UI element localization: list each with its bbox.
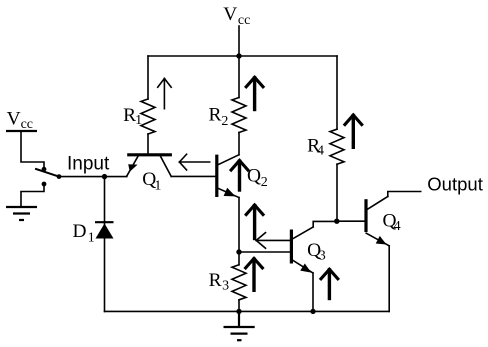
wire: input node to Q1 emitter <box>59 176 127 178</box>
current arrow (thin, left) from Q2 base <box>179 154 209 170</box>
junction: input wire / D1 <box>102 174 107 179</box>
label R1 <box>123 105 142 128</box>
junction: Q3 emitter / bottom rail <box>310 309 315 314</box>
resistor R1 <box>141 56 155 153</box>
transistor Q2 <box>217 155 239 198</box>
current arrow (thin, left) from Q3 base <box>256 233 291 249</box>
current arrow (thick, up) beside Q3 emitter <box>321 269 338 298</box>
transistor Q1 <box>127 155 172 177</box>
label D1 <box>73 221 95 245</box>
svg-text:1: 1 <box>135 113 142 128</box>
junction: bottom rail / ground <box>236 309 241 314</box>
transistor Q3 <box>291 221 336 311</box>
transistor Q4 <box>366 192 421 312</box>
label R3 <box>209 270 230 294</box>
net Vcc label (top) <box>223 4 250 28</box>
junction: R4 / Q3 collector / Q4 base <box>334 219 339 224</box>
current arrow (thick, up) above R3 junction <box>246 205 263 239</box>
diode D1 <box>95 177 114 312</box>
svg-text:2: 2 <box>221 114 228 129</box>
label Q2 <box>247 165 268 190</box>
label Q3 <box>307 240 326 264</box>
ground (bottom center) <box>224 311 255 340</box>
wire: switch lower contact to ground <box>21 184 44 207</box>
wire: Vcc stub down to top rail <box>238 26 240 56</box>
wire: top Vcc rail <box>148 55 337 57</box>
svg-text:2: 2 <box>261 175 268 190</box>
svg-text:Output: Output <box>427 173 483 194</box>
wire: Q1 collector to Q2 base <box>171 175 217 177</box>
svg-text:4: 4 <box>394 219 401 234</box>
resistor R4 <box>330 56 344 221</box>
wire: Vcc bar to switch upper contact <box>21 131 44 169</box>
svg-text:V: V <box>223 4 237 25</box>
wire: junction to Q4 base <box>337 220 366 222</box>
svg-text:1: 1 <box>88 230 95 245</box>
label Q1 <box>142 169 161 194</box>
svg-text:3: 3 <box>222 279 229 294</box>
wire: junction to Q3 base <box>239 251 291 253</box>
current arrow (thick, up) beside R4 <box>345 115 362 147</box>
svg-text:cc: cc <box>21 117 33 132</box>
svg-text:3: 3 <box>319 249 326 264</box>
junction: Vcc rail / R2 <box>236 53 241 58</box>
label Output <box>427 173 483 194</box>
svg-text:4: 4 <box>317 144 324 159</box>
ground (left) <box>6 207 37 220</box>
svg-text:1: 1 <box>154 179 161 194</box>
current arrow (thin, up) beside R1 <box>158 79 172 109</box>
svg-text:D: D <box>73 221 87 242</box>
current arrow (thick, up) beside Q2 <box>231 161 248 191</box>
wire: Q2 emitter down to R3 junction <box>238 198 240 253</box>
svg-text:R: R <box>209 105 222 126</box>
label R4 <box>307 135 324 158</box>
label Q4 <box>383 210 401 234</box>
junction: Q2 emitter / R3 / Q3 base <box>236 249 241 254</box>
svg-text:Q: Q <box>247 165 261 186</box>
resistor R3 <box>232 252 246 311</box>
current arrow (thick, up) beside R3 <box>246 258 263 290</box>
switch SW (input select) <box>36 167 61 187</box>
power Vcc bar (left) <box>6 130 37 132</box>
wire: bottom ground rail <box>105 310 390 312</box>
current arrow (thick, up) beside R2 <box>246 77 263 109</box>
svg-text:Input: Input <box>67 154 110 175</box>
label R2 <box>209 105 229 130</box>
label Input <box>67 154 110 175</box>
net Vcc label (left) <box>7 108 33 131</box>
resistor R2 <box>232 56 246 155</box>
svg-text:V: V <box>7 108 21 129</box>
svg-text:R: R <box>209 270 222 291</box>
